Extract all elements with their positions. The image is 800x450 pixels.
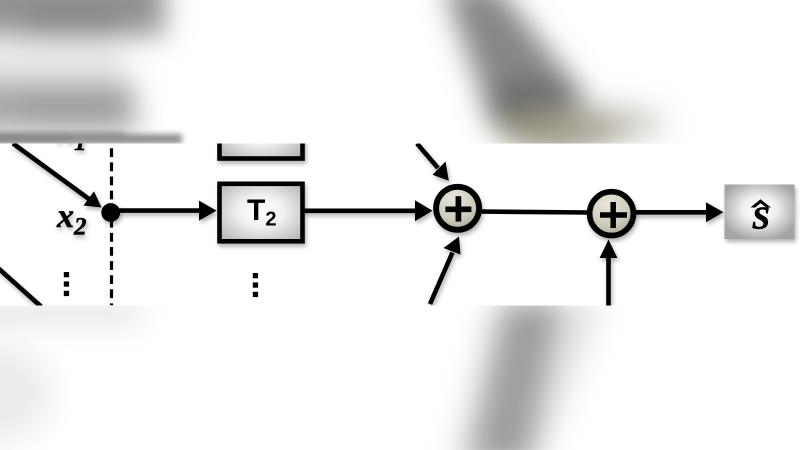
blurred junction blob kernel [486, 80, 578, 136]
faint bottom-left blob [0, 343, 52, 443]
block T2 [220, 184, 303, 242]
wire: diagonal arrow from x1 row into node [13, 144, 102, 208]
blurred junction blob khaki [496, 108, 624, 152]
wire: diagonal arrow into summing junction 1 from top [417, 144, 449, 181]
output box S-hat [725, 185, 795, 240]
ellipsis under T2 [253, 273, 258, 297]
wire: junction 1 to junction 2 [478, 212, 590, 213]
sharp white band [0, 144, 800, 306]
ellipsis under x2 [64, 272, 69, 296]
top-left blurred stripe 1 [0, 0, 165, 36]
wire: arrow from node to block T2 [111, 201, 217, 221]
summing junction S2 [590, 192, 634, 236]
wire: vertical arrow into summing junction 2 from bottom [600, 240, 618, 306]
wire: diagonal line fragment bottom-left [0, 268, 41, 307]
wire: diagonal arrow into summing junction 1 from bottom [430, 237, 461, 305]
top diagonal blurred streak [443, 0, 590, 112]
bottom diagonal blurred streak fringe [452, 302, 605, 450]
dark strip above band edge (tighter blur) [0, 132, 182, 144]
node dot on x2 line [101, 203, 120, 222]
bottom diagonal blurred streak core [468, 302, 562, 450]
wire: arrow from T2 to summing junction 1 [304, 200, 433, 221]
wire: arrow from junction 2 to output box [633, 202, 724, 222]
summing junction S1 [436, 187, 479, 230]
strip below band edge left [0, 307, 140, 320]
top-left blurred stripe 2 [0, 82, 135, 130]
block T1 (bottom fragment) [220, 100, 303, 159]
dashed tap line [110, 148, 113, 305]
